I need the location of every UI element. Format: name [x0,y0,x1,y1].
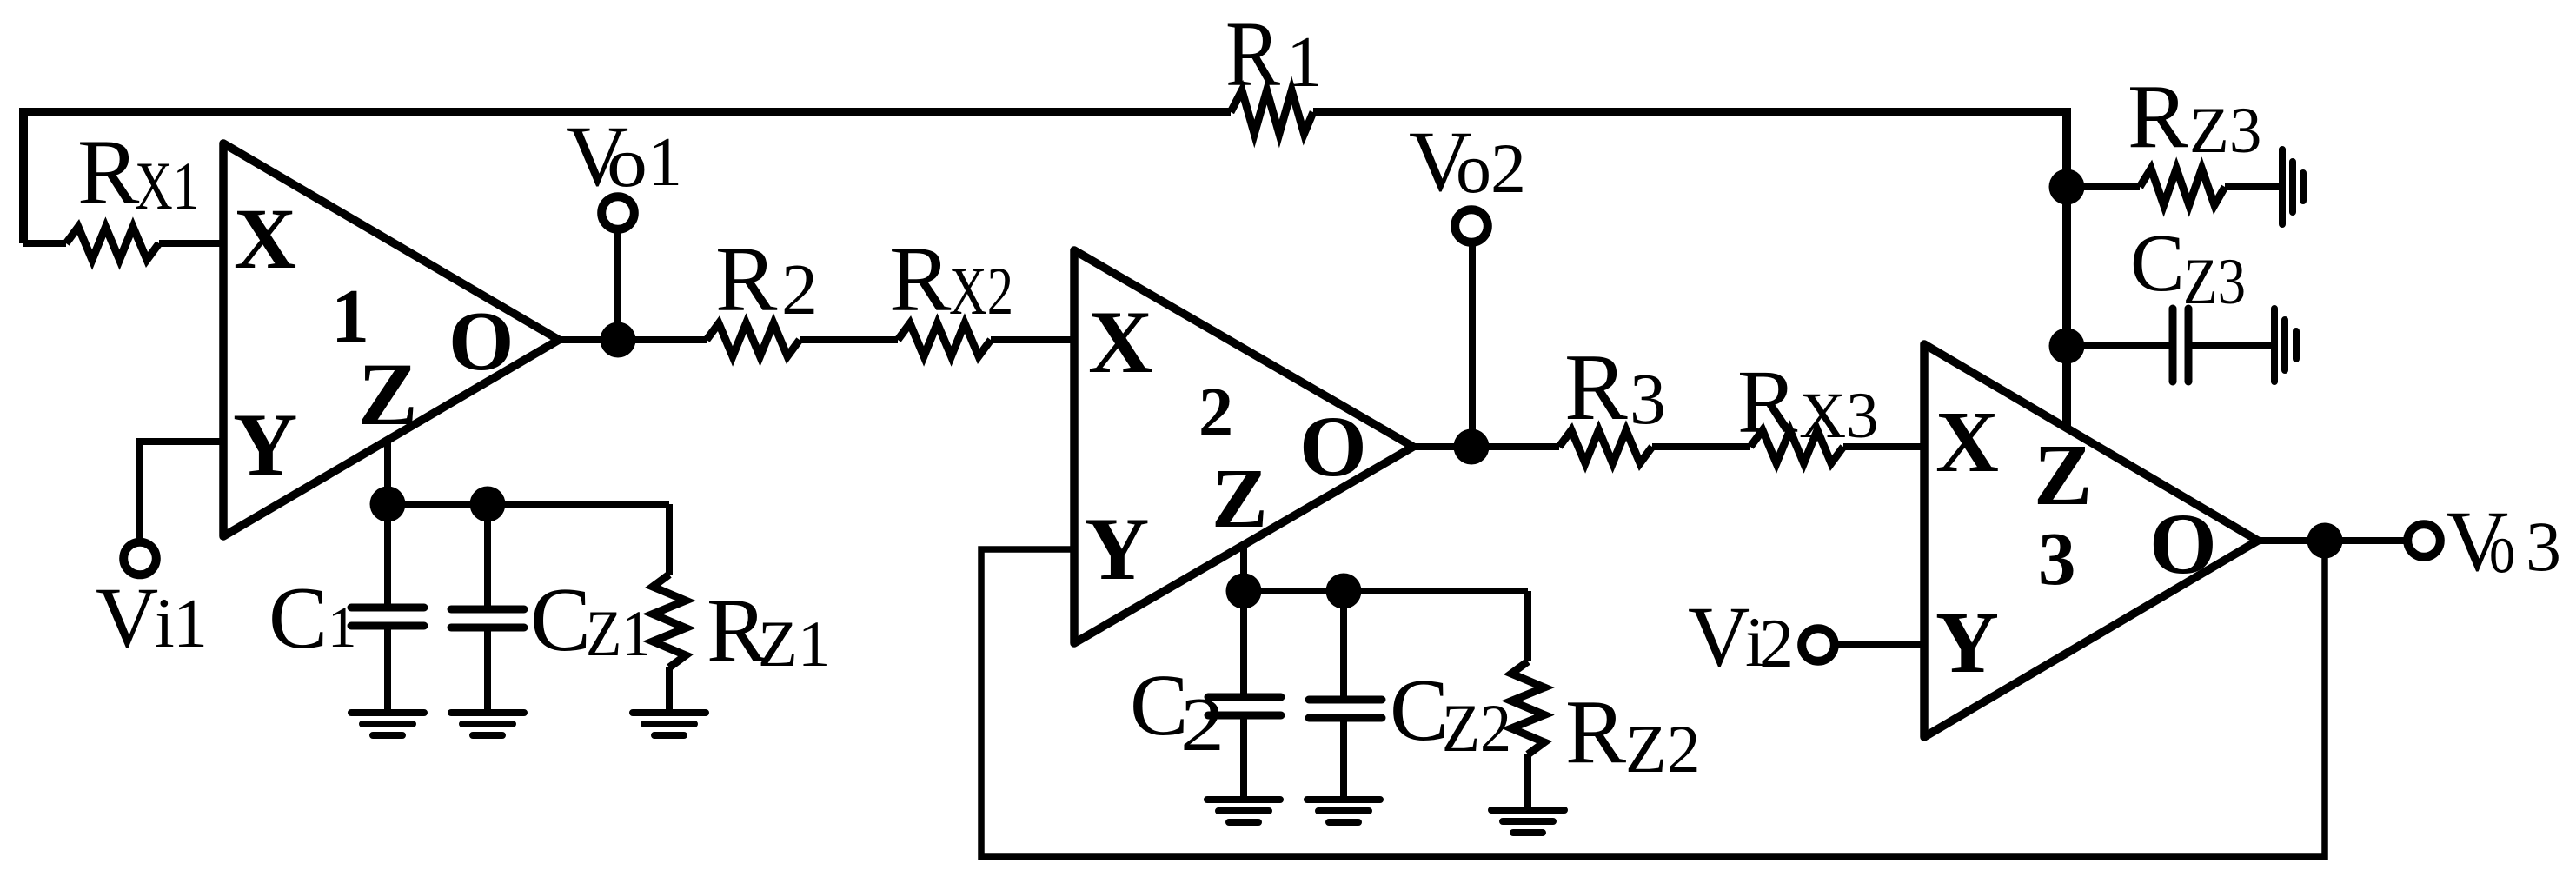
svg-text:V: V [96,569,158,666]
svg-text:R: R [1565,681,1626,782]
svg-text:R: R [77,122,140,224]
svg-text:R: R [1737,352,1798,452]
svg-text:O: O [2149,495,2217,592]
svg-text:R: R [1564,335,1628,440]
svg-text:C: C [530,568,591,670]
svg-text:o: o [1456,129,1491,208]
svg-text:C: C [1390,661,1449,760]
svg-text:1: 1 [328,595,357,660]
svg-text:O: O [448,295,514,388]
svg-text:X: X [1088,293,1152,392]
svg-text:2: 2 [1198,375,1233,451]
svg-text:R: R [2128,65,2188,167]
svg-text:R: R [1225,3,1281,106]
svg-text:Z3: Z3 [2183,246,2246,318]
svg-text:Y: Y [1935,594,1999,691]
svg-text:o: o [2489,508,2515,588]
svg-text:Z: Z [358,345,418,444]
svg-text:X3: X3 [1799,380,1879,452]
svg-text:X2: X2 [949,253,1013,329]
svg-text:Z1: Z1 [758,608,830,681]
svg-text:3: 3 [2526,507,2561,586]
svg-text:Z2: Z2 [1625,711,1701,787]
svg-text:1: 1 [173,586,208,662]
svg-text:C: C [2130,218,2185,309]
svg-text:R: R [889,229,952,331]
svg-text:Z2: Z2 [1442,690,1511,766]
svg-text:Z3: Z3 [2189,95,2261,167]
svg-text:Y: Y [1085,500,1149,599]
svg-text:Z: Z [2034,426,2092,523]
svg-text:i: i [155,583,175,662]
svg-text:2: 2 [1490,129,1526,208]
svg-text:Y: Y [233,395,297,495]
svg-text:O: O [1299,398,1367,495]
svg-text:1: 1 [647,124,682,201]
svg-text:Z: Z [1212,452,1268,545]
svg-text:2: 2 [1759,606,1794,682]
svg-text:R: R [715,229,778,331]
svg-text:2: 2 [1180,683,1225,767]
svg-text:X: X [1935,393,1999,490]
svg-text:2: 2 [781,249,818,330]
svg-text:V: V [1688,588,1750,685]
svg-text:X1: X1 [135,148,199,223]
svg-text:X: X [234,190,296,287]
svg-text:3: 3 [2038,516,2076,601]
svg-text:1: 1 [1286,22,1323,103]
svg-text:3: 3 [1630,359,1666,440]
svg-text:C: C [269,569,328,667]
svg-text:o: o [607,123,647,202]
svg-text:Z1: Z1 [586,598,651,670]
